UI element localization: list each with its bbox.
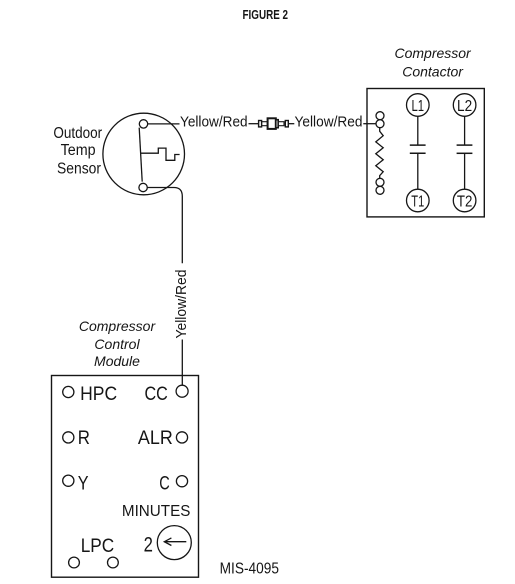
sensor bottom terminal — [139, 183, 147, 191]
dial arrow — [165, 541, 187, 543]
svg-text:ALR: ALR — [138, 427, 173, 449]
terminal CC — [176, 385, 188, 397]
svg-text:L2: L2 — [457, 98, 472, 115]
contactor coil terminals top — [376, 112, 384, 120]
wire: sensor bottom terminal down to module CC — [147, 188, 182, 264]
svg-text:Contactor: Contactor — [402, 63, 464, 79]
contactor coil terminals bottom — [376, 178, 384, 186]
svg-text:Yellow/Red: Yellow/Red — [173, 270, 190, 339]
module bottom terminal 1 — [69, 557, 80, 568]
terminal T2 — [453, 189, 476, 212]
contact L1-T1 wire and plates — [417, 116, 419, 144]
svg-text:FIGURE 2: FIGURE 2 — [243, 7, 289, 22]
svg-text:Sensor: Sensor — [57, 160, 101, 177]
wire: label to connector — [249, 123, 259, 125]
sensor actuator step line — [141, 148, 180, 160]
inline quick-connect connector — [259, 118, 289, 129]
svg-text:Outdoor: Outdoor — [53, 125, 102, 142]
svg-text:CC: CC — [145, 383, 168, 405]
terminal L1 — [407, 94, 430, 117]
svg-text:MINUTES: MINUTES — [122, 503, 190, 520]
wire: connector to right label — [288, 123, 294, 125]
terminal Y — [63, 475, 74, 486]
svg-text:Yellow/Red: Yellow/Red — [180, 114, 248, 131]
svg-text:Compressor: Compressor — [394, 45, 472, 61]
contactor coil winding zigzag — [376, 128, 383, 179]
module bottom terminal 2 — [108, 557, 119, 568]
sensor top terminal — [139, 120, 147, 128]
terminal R — [63, 432, 74, 443]
svg-text:R: R — [78, 427, 90, 449]
wire: label into contactor to coil — [363, 123, 376, 125]
svg-text:Y: Y — [78, 473, 89, 495]
svg-text:Temp: Temp — [61, 142, 96, 159]
svg-text:HPC: HPC — [80, 383, 117, 405]
contact L2-T2 wire and plates — [464, 116, 466, 144]
contactor label — [394, 45, 472, 79]
svg-text:T2: T2 — [457, 194, 473, 211]
svg-text:Control: Control — [94, 336, 140, 352]
terminal C — [176, 476, 187, 487]
terminal HPC — [63, 386, 74, 397]
svg-text:Compressor: Compressor — [79, 318, 157, 334]
sensor switch blade — [139, 128, 142, 182]
wire: sensor top terminal to first label — [148, 123, 180, 125]
svg-text:2: 2 — [144, 532, 153, 556]
svg-text:L1: L1 — [412, 98, 425, 115]
svg-text:C: C — [159, 473, 170, 495]
svg-text:Module: Module — [94, 353, 140, 369]
svg-text:T1: T1 — [411, 194, 424, 211]
wire: below label to CC terminal — [181, 340, 183, 386]
minutes dial — [157, 526, 191, 560]
terminal L2 — [453, 94, 476, 117]
outdoor temp sensor label — [53, 125, 102, 177]
svg-text:Yellow/Red: Yellow/Red — [295, 114, 363, 131]
outdoor temp sensor body circle — [103, 113, 185, 195]
module label — [79, 318, 157, 369]
svg-text:LPC: LPC — [81, 535, 115, 557]
terminal ALR — [176, 432, 187, 443]
terminal T1 — [407, 189, 430, 212]
compressor contactor box — [367, 89, 484, 217]
compressor control module box — [52, 376, 199, 578]
svg-text:MIS-4095: MIS-4095 — [220, 561, 279, 578]
